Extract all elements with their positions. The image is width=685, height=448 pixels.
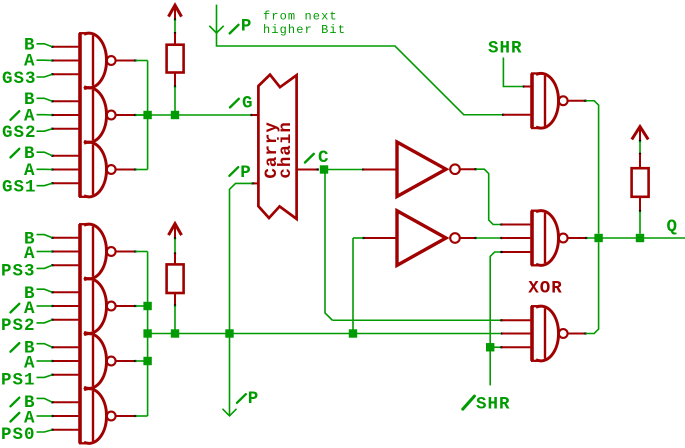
input label PS2 (PS group) — [1, 316, 52, 336]
input label A (GS group) — [24, 52, 52, 72]
label XOR — [528, 279, 563, 299]
input label GS3 (GS group) — [2, 69, 52, 89]
3-input NAND U13 (XOR lower) — [531, 306, 568, 361]
wire U10 output to Q net — [586, 101, 599, 234]
trio input pins — [51, 46, 78, 185]
carry chain pin /G — [252, 114, 259, 116]
wire /SHR net vertical — [490, 251, 502, 386]
svg-text:PS1: PS1 — [1, 370, 36, 390]
NAND gate trio input bar — [78, 33, 82, 197]
svg-text:XOR: XOR — [528, 279, 563, 299]
wire quad output bus vertical — [135, 252, 147, 417]
wire /P top to SHR gate — [217, 46, 505, 116]
svg-text:P: P — [248, 389, 260, 409]
wire PS net horizontal — [148, 332, 504, 334]
wire arrow to R2 — [174, 238, 176, 253]
svg-text:PS3: PS3 — [1, 262, 36, 282]
input label /B (GS group) — [11, 144, 53, 164]
svg-text:P: P — [240, 163, 252, 183]
3-input NAND U1 (B,A,GS3) — [79, 33, 116, 88]
svg-text:SHR: SHR — [476, 395, 511, 415]
arrow /P input from next higher bit — [209, 5, 223, 46]
wire SHR label to gate — [503, 58, 525, 88]
label /P (carry chain input) — [229, 163, 251, 183]
wire U13 output to Q net — [586, 242, 599, 333]
svg-text:PS0: PS0 — [1, 425, 36, 445]
input label B (PS group) — [24, 230, 52, 250]
resistor R3 — [632, 153, 649, 213]
carry chain block U8 — [258, 75, 296, 219]
junction /SHR tap — [486, 343, 494, 351]
carry chain pin /P — [251, 182, 258, 184]
junction R3 bottom on Q net — [636, 234, 644, 242]
wire /C down — [325, 170, 332, 321]
3-input NAND U12 (XOR upper) — [531, 211, 568, 266]
label /P (top) — [230, 17, 253, 37]
U11 output pin — [460, 237, 477, 239]
wire U11 input from PS net — [353, 238, 363, 334]
wire /P net from carry chain down — [230, 183, 253, 333]
carry chain pin /C — [297, 168, 319, 170]
input label A (PS group) — [24, 354, 52, 374]
wire R3 to Q net — [639, 211, 641, 234]
input label B (GS group) — [24, 90, 52, 110]
wire U9 output to XOR gate input — [476, 169, 503, 225]
svg-text:GS3: GS3 — [2, 69, 37, 89]
3-input NAND U6 (/B,A,PS1) — [84, 334, 116, 389]
wire /P net to bottom arrow — [229, 334, 231, 416]
junction R1 bottom — [171, 111, 179, 119]
svg-text:GS1: GS1 — [2, 178, 37, 198]
power arrow (R2 pull-up rail) — [169, 223, 182, 240]
2-input NAND U10 (SHR gate) — [531, 73, 568, 128]
quad output pins — [116, 250, 137, 417]
3-input NAND U3 (/B,A,GS1) — [79, 142, 116, 197]
junction quad G2 output — [143, 302, 151, 310]
wire /SHR to XOR lower gate input3 — [490, 346, 502, 348]
svg-text:G: G — [242, 94, 254, 114]
wire /C to XOR low gate input — [332, 319, 502, 321]
input label B (GS group) — [24, 35, 52, 55]
U13 input pins — [502, 320, 531, 347]
3-input NAND U2 (B,/A,GS2) — [84, 88, 116, 143]
wire arrow to R1 — [174, 20, 176, 34]
U11 input pin — [362, 237, 397, 239]
wire R2 to PS net — [174, 306, 176, 330]
power arrow (R1 pull-up rail) — [169, 5, 182, 21]
svg-text:PS2: PS2 — [1, 316, 36, 336]
svg-text:chain: chain — [276, 121, 296, 179]
wire trio output bus vertical — [135, 61, 147, 170]
NAND gate quad input bar — [78, 224, 82, 443]
wire R1 to /G net — [174, 87, 176, 112]
input label /A (PS group) — [11, 299, 53, 319]
junction /C node — [320, 165, 328, 173]
power arrow (R3 pull-up rail) — [632, 126, 648, 142]
svg-text:higher Bit: higher Bit — [263, 23, 346, 37]
U9 input pin — [363, 169, 397, 171]
U10 input pins — [503, 87, 530, 115]
label /SHR — [463, 395, 511, 415]
junction quad G3 output — [143, 357, 151, 365]
trio output pins — [116, 59, 137, 170]
svg-text:C: C — [318, 148, 330, 168]
input label B (PS group) — [24, 284, 52, 304]
label Q — [667, 217, 679, 237]
label /P (bottom) — [237, 389, 259, 409]
input label GS2 (GS group) — [2, 123, 52, 143]
label /G — [230, 94, 254, 114]
3-input NAND U4 (B,A,PS3) — [79, 224, 116, 279]
3-input NAND U7 (/B,/A,PS0) — [79, 389, 116, 444]
inverter U11 — [397, 211, 460, 265]
junction R2 bottom — [171, 329, 179, 337]
input label PS1 (PS group) — [1, 370, 52, 390]
input label /A (GS group) — [11, 107, 53, 127]
svg-text:Q: Q — [667, 217, 679, 237]
input label /A (PS group) — [11, 408, 53, 428]
label /C — [305, 148, 330, 168]
svg-text:P: P — [241, 17, 253, 37]
label from next higher Bit — [263, 9, 346, 37]
label SHR — [488, 38, 523, 58]
input label A (PS group) — [24, 244, 52, 264]
junction PS bus tap — [143, 329, 151, 337]
wire /C to inverter U9 — [324, 168, 364, 170]
svg-text:SHR: SHR — [488, 38, 523, 58]
input label PS3 (PS group) — [1, 262, 52, 282]
wire arrow to R3 — [639, 141, 641, 154]
wire /G net horizontal — [135, 114, 252, 116]
input label PS0 (PS group) — [1, 425, 52, 445]
junction U11 input tap — [349, 329, 357, 337]
input label /B (PS group) — [11, 393, 53, 413]
arrow /P output (to next lower bit) — [223, 409, 237, 416]
resistor R1 — [167, 32, 184, 88]
inverter U9 — [397, 142, 460, 197]
U13 output pin — [568, 332, 587, 334]
input label GS1 (GS group) — [2, 178, 52, 198]
quad input pins — [51, 237, 78, 431]
carry chain label text — [262, 121, 296, 179]
U9 output pin — [460, 168, 477, 170]
svg-text:from next: from next — [263, 9, 338, 23]
input label A (GS group) — [24, 161, 52, 181]
U12 input pins — [502, 225, 531, 253]
svg-text:GS2: GS2 — [2, 123, 37, 143]
3-input NAND U5 (B,/A,PS2) — [84, 279, 116, 334]
input label /B (PS group) — [11, 339, 53, 359]
junction trio G2 output — [143, 111, 151, 119]
wire Q net horizontal — [586, 237, 685, 239]
wire U11 output to XOR gate — [476, 237, 503, 239]
resistor R2 — [167, 252, 184, 306]
U12 output pin — [568, 237, 588, 239]
U10 output pin — [568, 100, 587, 102]
junction Q node — [594, 234, 602, 242]
junction /P tap on PS net — [225, 329, 233, 337]
